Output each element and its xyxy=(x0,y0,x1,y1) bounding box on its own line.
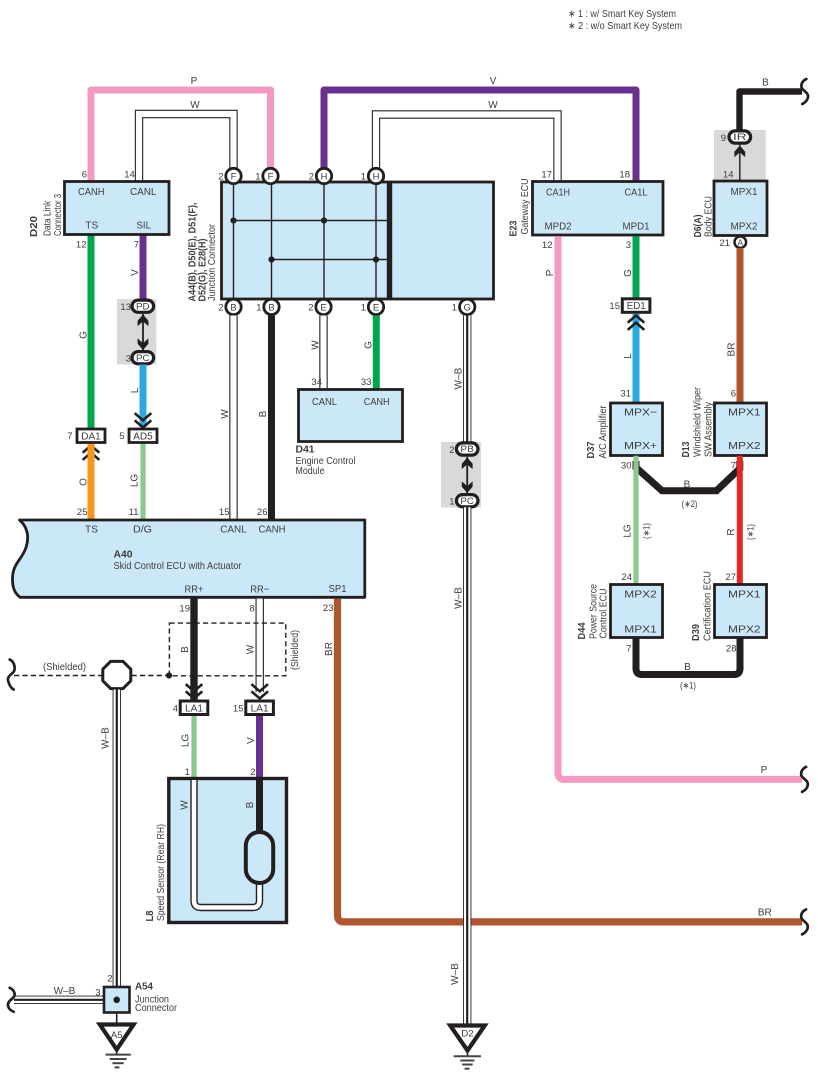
svg-text:21: 21 xyxy=(719,238,730,249)
svg-text:W–B: W–B xyxy=(454,587,465,609)
svg-text:34: 34 xyxy=(311,377,322,388)
connector ED1 pin15 xyxy=(609,299,649,313)
junction pin 2F xyxy=(218,168,241,183)
svg-text:MPX2: MPX2 xyxy=(728,440,761,452)
svg-text:E23: E23 xyxy=(508,220,520,236)
svg-text:CANH: CANH xyxy=(259,523,286,535)
svg-text:28: 28 xyxy=(726,643,737,654)
svg-text:8: 8 xyxy=(250,604,255,615)
svg-text:W: W xyxy=(190,100,200,111)
svg-text:CANL: CANL xyxy=(130,186,157,198)
svg-text:LG: LG xyxy=(130,474,141,488)
wire W (white): junction 2B to A40 CANL pin15 xyxy=(220,316,234,520)
svg-text:D39: D39 xyxy=(690,624,702,641)
svg-text:F: F xyxy=(268,171,274,182)
svg-text:9: 9 xyxy=(721,133,726,144)
in-harness connector zone PD/PC (grey) xyxy=(117,299,156,365)
svg-text:Control ECU: Control ECU xyxy=(598,589,610,639)
junction connector A44(B)/D50(E)/D51(F)/D52(G)/E28(H) - left block xyxy=(222,182,389,299)
chevron into LA1 left xyxy=(186,684,203,698)
wire B (black) inside L8 xyxy=(245,779,260,834)
svg-text:Gateway ECU: Gateway ECU xyxy=(519,179,531,235)
svg-text:SP1: SP1 xyxy=(329,583,347,595)
wire link between PB and PC connectors xyxy=(466,457,468,494)
svg-text:MPX2: MPX2 xyxy=(728,624,761,636)
wire B (black): D44 MPX1 pin7 to D39 MPX2 pin28 (*1) xyxy=(636,638,740,691)
sensor element oval inside L8 xyxy=(246,832,273,883)
svg-text:MPX1: MPX1 xyxy=(728,407,761,419)
svg-text:2: 2 xyxy=(250,767,255,778)
svg-text:Connector 3: Connector 3 xyxy=(52,194,64,236)
svg-text:15: 15 xyxy=(219,507,230,518)
connector arrow above PC xyxy=(138,338,149,350)
connector LA1 pin4 xyxy=(173,701,208,715)
junction node CANL bus dot xyxy=(230,217,236,223)
junction node CANH-CA1H dot xyxy=(373,256,379,262)
svg-text:B: B xyxy=(258,410,269,417)
svg-text:MPX1: MPX1 xyxy=(624,624,657,636)
svg-text:RR+: RR+ xyxy=(185,584,204,596)
svg-text:CA1H: CA1H xyxy=(546,186,570,198)
svg-text:MPX1: MPX1 xyxy=(728,588,761,600)
svg-text:PC: PC xyxy=(460,496,474,506)
wire link between PD and PC connectors xyxy=(142,314,144,351)
svg-text:PC: PC xyxy=(136,353,150,363)
ground symbol at A5 xyxy=(106,1050,131,1068)
svg-text:DA1: DA1 xyxy=(81,431,101,442)
svg-text:W: W xyxy=(246,644,257,654)
svg-text:(Shielded): (Shielded) xyxy=(43,662,86,673)
wire P (pink): E23 MPD2 pin12 to off-page right xyxy=(545,236,802,779)
shield dashed outline around RR wires xyxy=(169,623,301,676)
ground A5 triangle xyxy=(100,1025,134,1050)
svg-text:V: V xyxy=(246,737,257,744)
wire V (violet): junction connector 2H to E23 CA1L pin18 xyxy=(324,76,636,183)
wire: IR to D6A MPX1 pin14 (thin) xyxy=(739,144,741,181)
svg-text:1: 1 xyxy=(185,767,190,778)
svg-text:14: 14 xyxy=(723,170,734,181)
wire P (pink): D20 CANH pin6 to junction connector 1F xyxy=(91,76,271,183)
svg-text:BR: BR xyxy=(324,642,335,656)
svg-text:A/C Amplifier: A/C Amplifier xyxy=(597,405,609,458)
svg-text:31: 31 xyxy=(620,389,631,400)
junction node CANL-CA1L dot xyxy=(321,217,327,223)
ground D2 triangle xyxy=(450,1026,485,1051)
svg-text:G: G xyxy=(364,341,375,349)
connector LA1 pin15 xyxy=(233,701,273,715)
svg-text:MPX2: MPX2 xyxy=(624,588,657,600)
svg-text:MPD2: MPD2 xyxy=(545,220,572,232)
svg-text:CANL: CANL xyxy=(312,396,337,408)
svg-text:O: O xyxy=(79,478,90,486)
svg-text:2: 2 xyxy=(449,445,454,456)
wire BR (brown): D6A MPX2 to D13 MPX1 pin6 xyxy=(727,248,741,404)
shield dashed drain line xyxy=(14,662,169,676)
module D13 Windshield Wiper SW Assembly xyxy=(680,387,767,472)
svg-text:2: 2 xyxy=(309,172,314,183)
off-page squiggle (P wire) xyxy=(801,767,808,792)
svg-text:AD5: AD5 xyxy=(133,431,153,442)
svg-text:Skid Control ECU with Actuator: Skid Control ECU with Actuator xyxy=(114,560,242,572)
svg-text:(∗1): (∗1) xyxy=(746,524,756,540)
svg-text:W: W xyxy=(180,800,191,810)
svg-text:CANL: CANL xyxy=(220,523,247,535)
svg-text:∗ 1 : w/ Smart Key System: ∗ 1 : w/ Smart Key System xyxy=(568,8,676,20)
svg-text:D2: D2 xyxy=(461,1028,474,1039)
svg-text:G: G xyxy=(623,269,634,277)
svg-text:W–B: W–B xyxy=(101,727,112,749)
svg-text:W–B: W–B xyxy=(54,986,76,997)
connector IR pin9 xyxy=(721,131,751,144)
wire W (white) inside L8 xyxy=(180,779,260,908)
module D39 Certification ECU xyxy=(690,571,767,654)
shield/case ground zone of D6A (grey) xyxy=(714,130,766,181)
connector PC pin1 xyxy=(449,495,478,508)
connector DA1 pin7 xyxy=(67,429,105,443)
off-page connector squiggle (B wire) xyxy=(801,79,808,104)
svg-text:B: B xyxy=(245,801,256,808)
svg-text:18: 18 xyxy=(619,170,630,181)
ground symbol at D2 xyxy=(454,1051,481,1069)
svg-text:D44: D44 xyxy=(576,622,588,639)
svg-text:IR: IR xyxy=(733,132,747,142)
connector arrow into IR xyxy=(734,146,745,158)
wire L (light blue): PC to connector AD5 pin5 xyxy=(130,365,143,428)
svg-text:CANH: CANH xyxy=(364,396,390,408)
svg-text:TS: TS xyxy=(85,220,98,232)
svg-text:V: V xyxy=(130,269,141,276)
connector D6(A) Body ECU xyxy=(692,181,767,238)
connector PB pin2 xyxy=(449,443,478,456)
svg-text:MPX−: MPX− xyxy=(624,407,657,419)
svg-text:Body ECU: Body ECU xyxy=(703,196,715,237)
junction pin 2B xyxy=(218,299,241,314)
chevron out of ED1 xyxy=(628,316,645,330)
wire LG (light green): D37 MPX+ pin30 to D44 MPX2 pin24 (*1) xyxy=(623,456,652,585)
svg-text:11: 11 xyxy=(129,507,139,518)
svg-text:Certification ECU: Certification ECU xyxy=(702,571,714,641)
svg-text:3: 3 xyxy=(95,988,100,999)
wire G (green): E23 MPD1 pin3 to ED1 xyxy=(623,236,636,300)
svg-text:B: B xyxy=(762,78,769,89)
svg-text:2: 2 xyxy=(308,303,313,314)
svg-text:1: 1 xyxy=(452,303,457,314)
svg-text:P: P xyxy=(191,76,198,87)
svg-text:D41: D41 xyxy=(296,444,315,456)
svg-text:BR: BR xyxy=(727,343,738,357)
svg-text:P: P xyxy=(761,765,768,776)
svg-text:A5: A5 xyxy=(111,1029,123,1040)
svg-text:6: 6 xyxy=(731,389,736,400)
svg-text:1: 1 xyxy=(449,497,454,508)
svg-text:LG: LG xyxy=(181,734,192,748)
svg-text:G: G xyxy=(464,302,471,313)
junction pin 1E xyxy=(361,299,384,314)
junction pin 1H xyxy=(361,168,384,183)
svg-text:4: 4 xyxy=(173,704,178,715)
connector arrow above PC xyxy=(462,481,473,493)
svg-text:1: 1 xyxy=(361,172,366,183)
junction connector - right block xyxy=(391,182,494,299)
wire W-B: off-page left to A54 pin3 xyxy=(14,986,104,1000)
svg-text:R: R xyxy=(726,528,737,535)
svg-text:L: L xyxy=(130,387,141,393)
junction pin 2H xyxy=(309,168,332,183)
wire W (white): junction 2E to D41 CANL pin34 xyxy=(311,316,324,391)
svg-text:27: 27 xyxy=(725,572,736,583)
wire V (violet): D20 SIL pin7 to connector PD pin13 xyxy=(130,234,143,300)
junction connector designator labels xyxy=(187,202,219,301)
junction pin 2E xyxy=(308,299,331,314)
svg-text:PD: PD xyxy=(136,301,150,311)
junction connector A54 xyxy=(95,974,177,1015)
chevron into LA1 right xyxy=(251,684,268,698)
wire BR (brown): A40 SP1 pin23 to off-page right xyxy=(324,599,802,922)
svg-text:ED1: ED1 xyxy=(627,301,646,312)
svg-text:MPD1: MPD1 xyxy=(623,220,650,232)
connector E23 Gateway ECU xyxy=(508,170,664,252)
junction pin 1B xyxy=(256,299,279,314)
svg-text:25: 25 xyxy=(77,507,88,518)
svg-text:7: 7 xyxy=(134,240,139,251)
svg-text:12: 12 xyxy=(76,240,87,251)
off-page squiggle (BR wire) xyxy=(801,909,808,934)
wire O (orange): DA1 to A40 TS pin25 xyxy=(79,444,92,519)
wire W (white): A40 RR- pin8 to LA1 pin15 xyxy=(246,599,260,693)
junction pin 1F xyxy=(255,168,278,183)
svg-text:BR: BR xyxy=(758,908,772,919)
svg-text:LA1: LA1 xyxy=(185,703,203,714)
svg-text:MPX2: MPX2 xyxy=(731,221,758,233)
svg-text:(Shielded): (Shielded) xyxy=(290,630,301,670)
svg-text:33: 33 xyxy=(361,377,372,388)
svg-text:B: B xyxy=(230,302,236,313)
off-page squiggle (W-B wire left) xyxy=(8,988,15,1012)
wire stub: A54 to ground triangle A5 xyxy=(116,1013,118,1025)
note: smart key legend xyxy=(568,8,682,32)
off-page squiggle (shield line left) xyxy=(8,660,15,690)
svg-text:7: 7 xyxy=(626,643,631,654)
svg-text:F: F xyxy=(231,171,237,182)
svg-text:D13: D13 xyxy=(680,441,692,457)
svg-text:PB: PB xyxy=(460,444,474,454)
module A40 Skid Control ECU with Actuator xyxy=(12,507,364,615)
svg-text:B: B xyxy=(180,646,191,653)
svg-text:1: 1 xyxy=(255,172,260,183)
svg-text:24: 24 xyxy=(621,572,632,583)
shield octagon node xyxy=(103,661,131,688)
svg-text:2: 2 xyxy=(218,172,223,183)
svg-text:(∗1): (∗1) xyxy=(642,523,652,539)
svg-text:13: 13 xyxy=(120,302,131,313)
svg-text:W–B: W–B xyxy=(454,367,465,389)
junction pin 1G xyxy=(452,299,475,314)
junction node CANH bus dot xyxy=(268,256,274,262)
svg-text:Speed Sensor (Rear RH): Speed Sensor (Rear RH) xyxy=(155,824,167,921)
junction connector internal bus bars xyxy=(234,183,389,298)
svg-text:Junction Connector: Junction Connector xyxy=(206,224,218,301)
svg-text:W–B: W–B xyxy=(450,963,461,985)
svg-text:CA1L: CA1L xyxy=(625,186,648,198)
svg-text:G: G xyxy=(79,331,90,339)
chevron into AD5 xyxy=(135,413,152,427)
svg-text:CANH: CANH xyxy=(78,186,105,198)
svg-text:E: E xyxy=(320,302,326,313)
wire B (black): D6A IR pin9 to off-page right xyxy=(740,78,803,132)
svg-text:1: 1 xyxy=(256,303,261,314)
svg-text:W: W xyxy=(311,340,322,350)
svg-text:B: B xyxy=(684,662,691,673)
svg-text:W: W xyxy=(488,100,498,111)
svg-text:MPX1: MPX1 xyxy=(731,186,758,198)
svg-text:H: H xyxy=(373,171,380,182)
svg-text:15: 15 xyxy=(233,704,244,715)
wire B (black): D37 MPX+ to D13 MPX2 (*2) xyxy=(636,461,740,509)
svg-text:P: P xyxy=(545,269,556,276)
svg-text:H: H xyxy=(321,171,328,182)
connector PC pin3 xyxy=(126,352,154,365)
wire B (black): A40 RR+ pin19 to LA1 pin4 xyxy=(180,599,194,701)
svg-text:3: 3 xyxy=(626,240,631,251)
wire R (red): D13 MPX2 pin7 to D39 MPX1 pin27 (*1) xyxy=(726,456,756,585)
connector D20 Data Link Connector 3 xyxy=(28,170,169,251)
svg-text:TS: TS xyxy=(85,523,98,535)
svg-text:MPX+: MPX+ xyxy=(624,440,657,452)
svg-text:6: 6 xyxy=(82,170,87,181)
junction dot inside A54 xyxy=(113,997,120,1004)
svg-text:D20: D20 xyxy=(28,216,40,237)
svg-text:LA1: LA1 xyxy=(251,703,269,714)
wire G (green): D20 TS pin12 to connector DA1 pin7 xyxy=(79,234,92,430)
wire B (black): junction 1B to A40 CANH pin26 xyxy=(258,316,272,520)
module D37 A/C Amplifier xyxy=(585,389,663,472)
connector PD pin13 xyxy=(120,300,153,313)
svg-text:SW Assembly: SW Assembly xyxy=(703,401,715,457)
svg-text:Module: Module xyxy=(296,465,325,477)
svg-text:L: L xyxy=(623,353,634,359)
wire LG (light green): AD5 to A40 D/G pin11 xyxy=(130,444,144,519)
wire W (white): junction connector 1H to E23 CA1H pin17 xyxy=(376,100,558,184)
svg-text:(∗1): (∗1) xyxy=(680,681,696,691)
svg-text:2: 2 xyxy=(107,974,112,985)
wire L (light blue): ED1 to D37 MPX- pin31 xyxy=(623,314,636,404)
wire W-B: junction 1G down to PB xyxy=(454,316,468,444)
svg-text:Connector: Connector xyxy=(135,1002,177,1014)
svg-text:D37: D37 xyxy=(585,441,597,458)
svg-text:14: 14 xyxy=(124,170,135,181)
chevron out of DA1 xyxy=(83,446,100,460)
svg-text:LG: LG xyxy=(623,524,634,538)
svg-text:7: 7 xyxy=(67,431,72,442)
svg-text:D/G: D/G xyxy=(133,523,152,535)
svg-text:RR−: RR− xyxy=(250,584,269,596)
svg-text:A: A xyxy=(737,238,743,248)
svg-text:E: E xyxy=(373,302,379,313)
in-harness connector zone PB/PC (grey) xyxy=(441,442,481,508)
svg-text:A54: A54 xyxy=(135,982,153,993)
connector arrow below PB xyxy=(462,458,473,470)
connector AD5 pin5 xyxy=(119,429,157,443)
sensor L8 Speed Sensor (Rear RH) xyxy=(144,779,287,923)
svg-text:12: 12 xyxy=(542,240,553,251)
wire LG (light green): LA1 to L8 pin1 xyxy=(181,716,195,780)
connector A: D6A MPX2 pin21 xyxy=(719,236,746,249)
svg-text:19: 19 xyxy=(179,604,190,615)
svg-text:B: B xyxy=(268,302,274,313)
svg-text:15: 15 xyxy=(609,301,620,312)
svg-text:17: 17 xyxy=(541,170,552,181)
svg-text:5: 5 xyxy=(119,431,124,442)
svg-text:1: 1 xyxy=(361,303,366,314)
svg-text:26: 26 xyxy=(257,507,268,518)
wire W (white): D20 CANL pin14 to junction connector 2F xyxy=(139,100,234,184)
wire W-B: PC down to ground D2 (crosses BR wire) xyxy=(450,507,467,1025)
module D41 Engine Control Module xyxy=(296,377,403,477)
wire G (green): junction 1E to D41 CANH pin33 xyxy=(364,316,377,391)
shield junction dot xyxy=(166,672,172,678)
wire W-B: shield octagon to A54 pin2 xyxy=(101,690,117,988)
svg-text:3: 3 xyxy=(126,354,131,365)
svg-text:SIL: SIL xyxy=(136,220,151,232)
wire V (violet): LA1 to L8 pin2 xyxy=(246,716,260,780)
svg-text:V: V xyxy=(490,76,497,87)
svg-text:W: W xyxy=(220,409,231,419)
svg-text:(∗2): (∗2) xyxy=(682,499,698,509)
svg-text:B: B xyxy=(684,480,691,491)
svg-text:∗ 2 : w/o Smart Key System: ∗ 2 : w/o Smart Key System xyxy=(568,20,682,32)
connector arrow below PD xyxy=(138,315,149,327)
svg-text:30: 30 xyxy=(621,461,632,472)
svg-text:23: 23 xyxy=(323,603,334,614)
svg-text:2: 2 xyxy=(218,303,223,314)
module D44 Power Source Control ECU xyxy=(576,572,663,654)
